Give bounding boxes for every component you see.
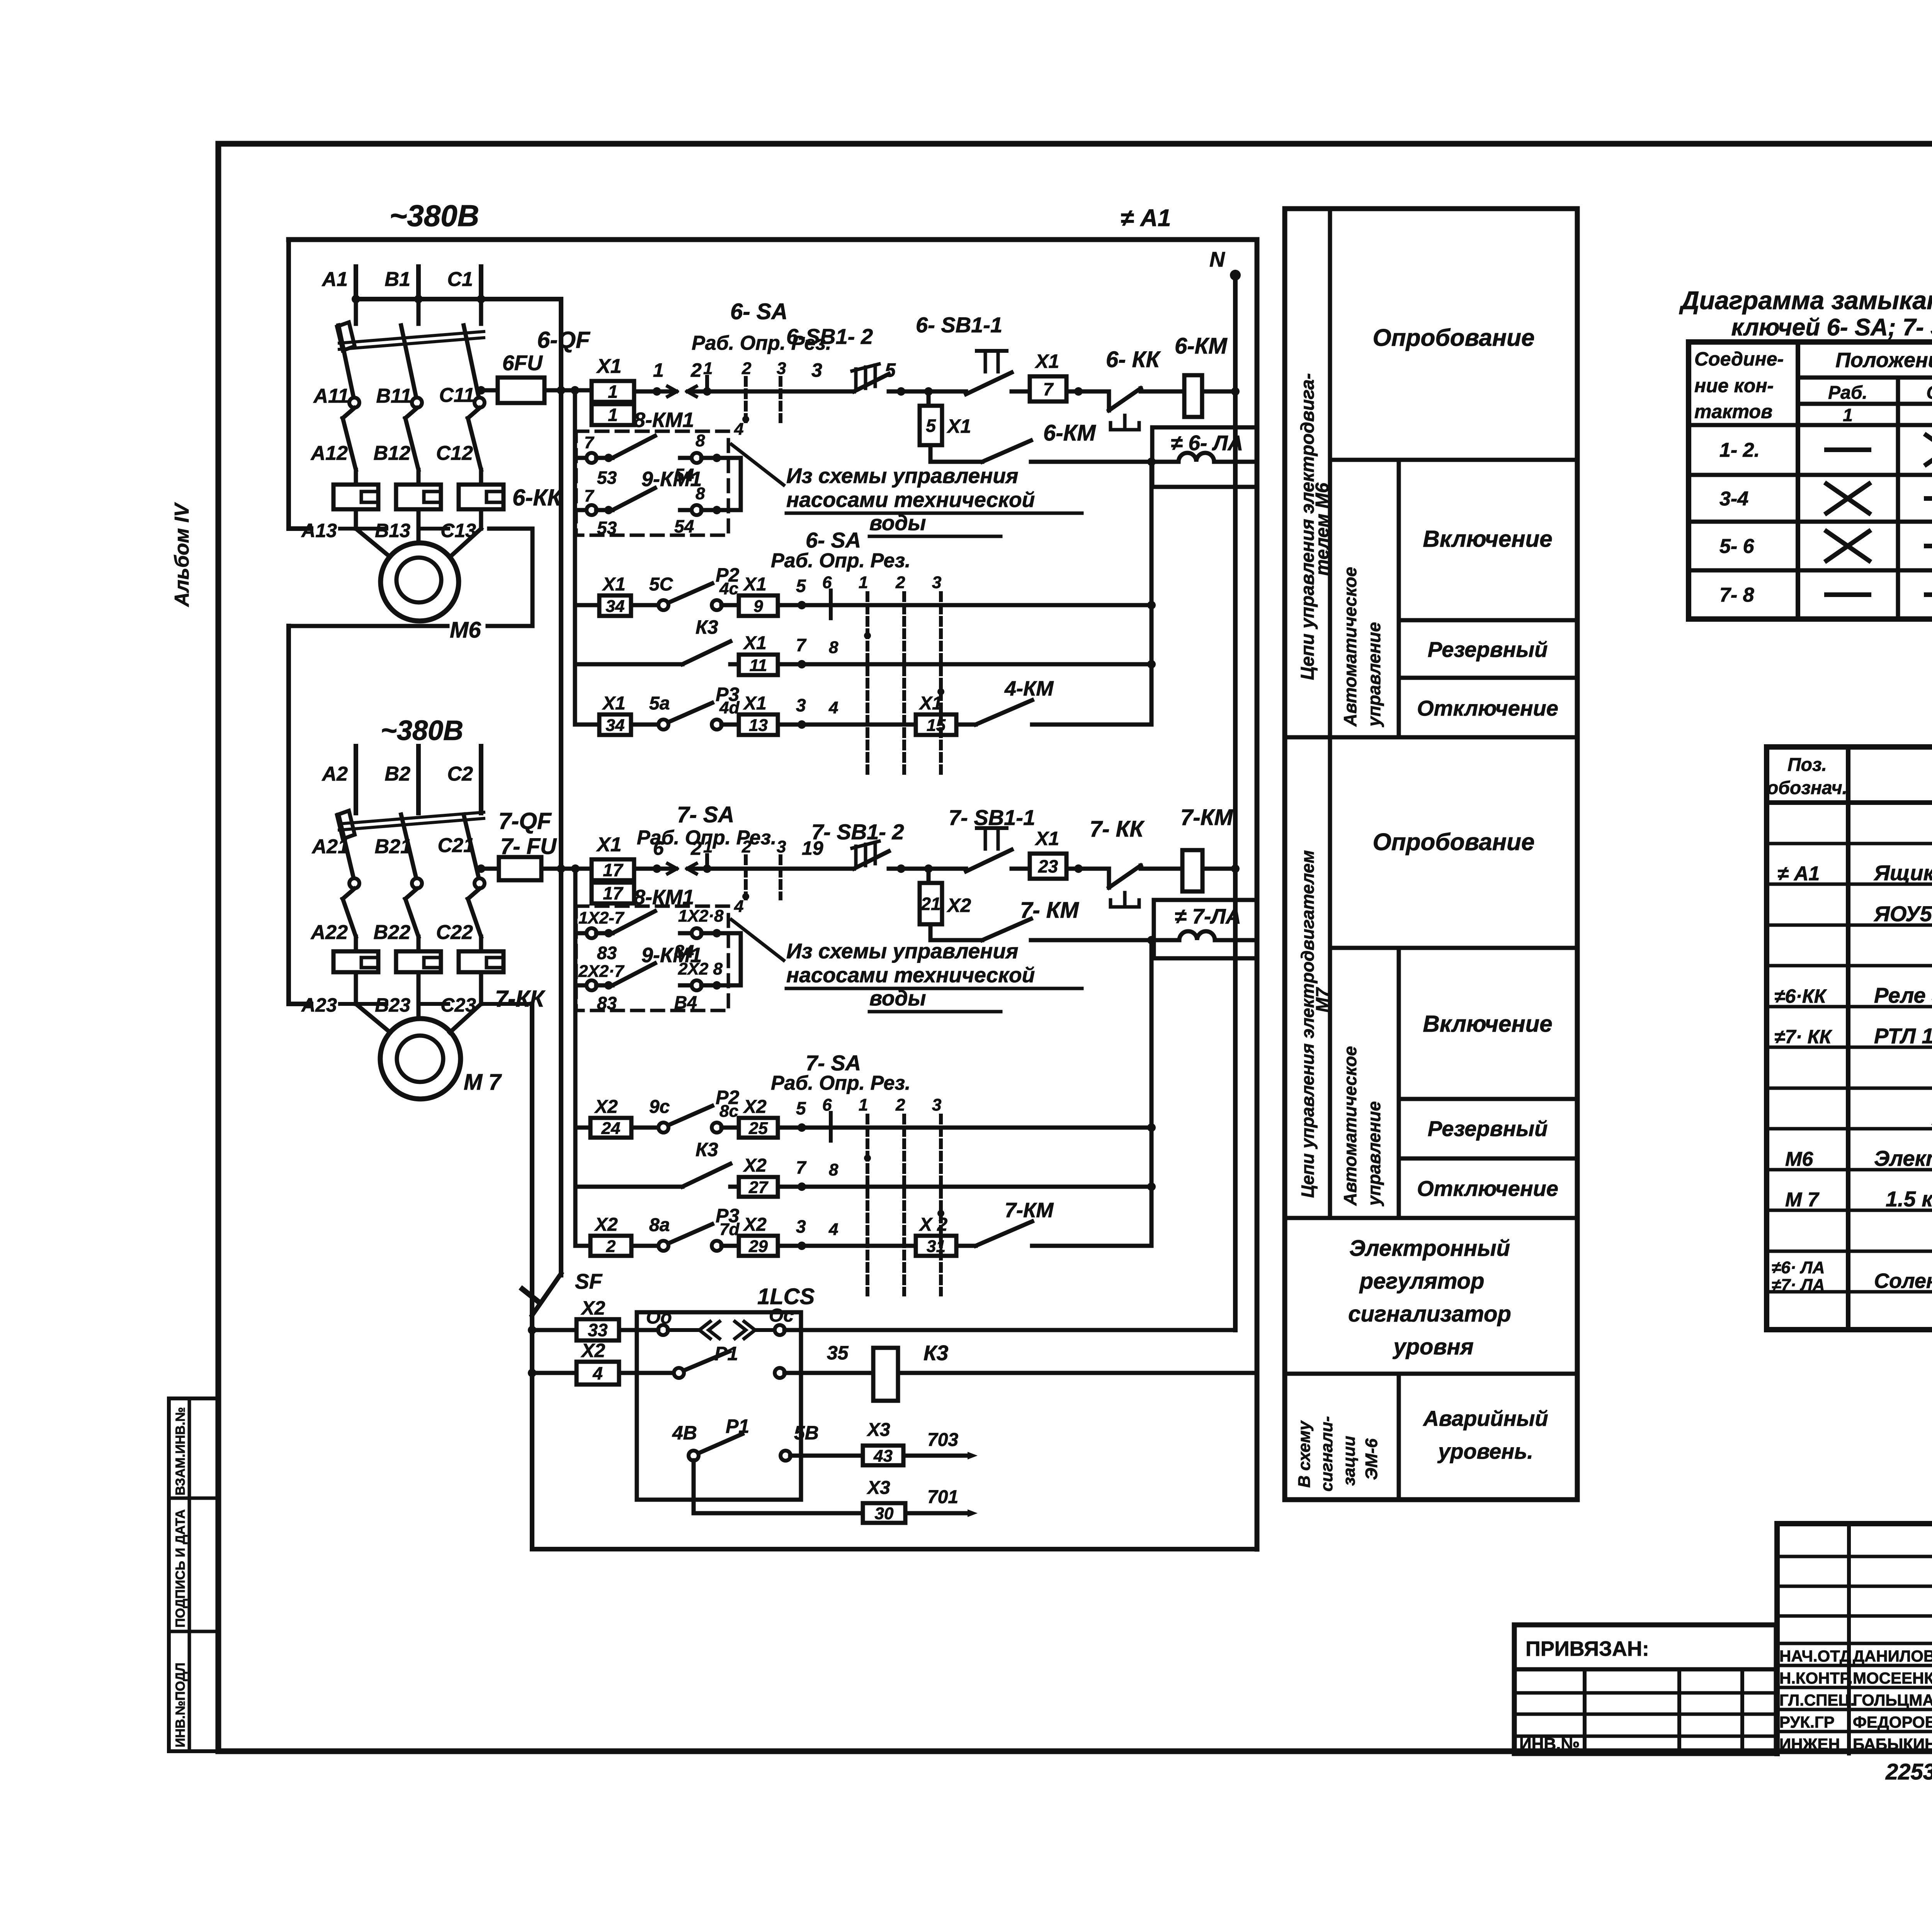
svg-text:ПОДПИСЬ И ДАТА: ПОДПИСЬ И ДАТА	[173, 1509, 188, 1628]
wire heater 1 to motor row	[354, 509, 358, 529]
connector X3 pin 30	[863, 1503, 905, 1523]
wire inductor to cabinet edge	[1214, 460, 1257, 464]
svg-text:2Х2 8: 2Х2 8	[678, 959, 723, 978]
motor M6 frame wire	[488, 529, 532, 626]
privyazan box	[1514, 1625, 1776, 1754]
motor M7 frame / section wire	[530, 1004, 534, 1549]
svg-text:Х2: Х2	[743, 1097, 767, 1117]
pushbutton 6-SB1-1 (stop)	[966, 351, 1012, 394]
svg-text:РТЛ 101004: РТЛ 101004	[1874, 1024, 1932, 1048]
svg-text:Х2: Х2	[580, 1340, 605, 1361]
wire 7-KM pole 2 to heater	[417, 937, 421, 951]
svg-text:В21: В21	[375, 835, 412, 858]
svg-text:1: 1	[703, 359, 713, 378]
svg-text:Отключение: Отключение	[1417, 1176, 1558, 1201]
dash mark	[1827, 447, 1869, 452]
svg-text:сигнали-: сигнали-	[1317, 1416, 1336, 1492]
wire pole 3 to heater	[479, 470, 483, 485]
connector X1 pin 13	[739, 714, 778, 735]
wire fuse to X1-17	[541, 867, 592, 871]
svg-text:1Х2-7: 1Х2-7	[578, 908, 625, 927]
connector X1 pin 23	[1030, 854, 1066, 879]
circuit breaker 6-QF pole 1 wire	[354, 299, 358, 324]
wire A13 row dash b	[421, 527, 448, 531]
thermal relay 7-KK heater 3	[459, 951, 503, 972]
svg-text:М6: М6	[450, 617, 481, 643]
svg-text:9-КМ1: 9-КМ1	[641, 468, 702, 491]
thermal relay contact 7-KK	[1109, 866, 1141, 907]
svg-text:6FU: 6FU	[502, 351, 543, 375]
svg-text:Х2: Х2	[743, 1214, 767, 1235]
svg-text:9: 9	[753, 597, 763, 616]
wire row3 b	[721, 723, 739, 727]
svg-text:Отключение: Отключение	[1417, 696, 1558, 720]
svg-text:Электронный: Электронный	[1349, 1236, 1510, 1261]
wire node5 to X1-5 connector	[927, 391, 931, 406]
svg-text:ИНВ.№: ИНВ.№	[1519, 1735, 1580, 1754]
wire phase C1 stub	[479, 267, 483, 299]
circuit breaker 6-QF pole 1 contact	[349, 398, 359, 408]
relay contact P2 (M7)	[658, 1106, 722, 1133]
svg-text:Цепи управления электродвигате: Цепи управления электродвигателем	[1298, 850, 1318, 1198]
svg-text:5: 5	[885, 359, 896, 381]
7-SA lower tick 6	[829, 1113, 833, 1141]
svg-text:А21: А21	[311, 835, 349, 858]
svg-text:зации: зации	[1340, 1436, 1359, 1486]
circuit breaker 7-QF pole 2 contact	[412, 878, 422, 888]
svg-text:≠7· КК: ≠7· КК	[1774, 1026, 1833, 1048]
svg-text:С12: С12	[436, 442, 473, 464]
svg-text:6-КМ: 6-КМ	[1175, 333, 1228, 359]
motor M6	[381, 543, 459, 621]
svg-text:обознач.: обознач.	[1767, 778, 1847, 798]
circuit breaker 7-QF pole 1 blade	[338, 815, 354, 878]
svg-text:1: 1	[608, 382, 618, 402]
M6 control sub-bus vertical	[573, 390, 577, 725]
svg-text:X1: X1	[1034, 350, 1059, 372]
svg-text:7- SА: 7- SА	[677, 802, 734, 827]
svg-text:X1: X1	[602, 574, 626, 595]
svg-text:М 7: М 7	[1785, 1189, 1820, 1211]
cabinet A1 top boundary line	[289, 237, 1257, 242]
svg-text:3: 3	[777, 359, 786, 378]
left margin strip box (inv/podp/vzam)	[169, 1398, 218, 1751]
wire 7-KM pole 3 to heater	[479, 937, 483, 951]
relay contact K3 (M7 row2)	[682, 1164, 730, 1187]
svg-text:6-КМ: 6-КМ	[1043, 420, 1096, 446]
motor M6 lead B	[417, 529, 421, 543]
svg-text:М7: М7	[1312, 987, 1332, 1012]
circuit breaker 6-QF pole 3 wire	[479, 299, 483, 324]
svg-text:1- 2.: 1- 2.	[1719, 439, 1760, 461]
wire to switch 7-SA	[692, 867, 854, 871]
svg-text:Соленоидный вентиль 15КЧ888Р: Соленоидный вентиль 15КЧ888РСВ	[1874, 1269, 1932, 1293]
wire X2-21 to 7-KM aux row	[929, 924, 933, 940]
svg-text:X1: X1	[946, 415, 971, 437]
wire SB1-2 to node 5	[889, 390, 966, 394]
solenoid 7-LA inductor	[1179, 931, 1215, 940]
svg-text:1: 1	[859, 573, 868, 592]
contactor 6-KM main contact pole 1	[343, 408, 356, 470]
svg-text:7- SВ1- 2: 7- SВ1- 2	[811, 820, 904, 844]
svg-text:РУК.ГР: РУК.ГР	[1779, 1713, 1835, 1731]
switch 7-SA tick 2	[744, 856, 748, 898]
switch 7-SA tick 3	[779, 856, 782, 898]
svg-text:А2: А2	[321, 763, 348, 785]
svg-text:6-КК: 6-КК	[512, 485, 563, 510]
svg-text:К3: К3	[696, 1139, 718, 1160]
svg-text:ГЛ.СПЕЦ.: ГЛ.СПЕЦ.	[1779, 1691, 1855, 1709]
svg-text:22535-04 8: 22535-04 8	[1885, 1759, 1932, 1784]
svg-text:2: 2	[690, 359, 702, 381]
svg-text:8-КМ1: 8-КМ1	[634, 408, 694, 432]
wire m7row1 to SA	[778, 1126, 1151, 1130]
svg-text:8: 8	[829, 1160, 838, 1179]
svg-text:3-4: 3-4	[1719, 488, 1748, 510]
wire row2 to SA	[778, 662, 1151, 667]
SA lower tick 6	[829, 590, 833, 618]
sensor electrodes symbol	[699, 1322, 755, 1339]
svg-text:X1: X1	[1034, 828, 1059, 849]
connector X2 pin 33	[577, 1319, 619, 1340]
svg-text:53: 53	[597, 518, 617, 538]
svg-text:5а: 5а	[649, 693, 670, 714]
svg-text:6- КК: 6- КК	[1106, 347, 1161, 372]
note text: from tech water pumps scheme (M7)	[786, 939, 1082, 1012]
connector X1 pin 5	[920, 406, 942, 445]
wire X1-5 down to KM aux row	[929, 445, 933, 462]
wire m7row3 to X2-31	[778, 1244, 916, 1248]
svg-text:2: 2	[606, 1237, 616, 1256]
svg-text:управление: управление	[1364, 1101, 1384, 1206]
svg-text:X1: X1	[743, 633, 767, 653]
svg-text:В1: В1	[385, 268, 410, 291]
svg-text:≠ 7-ЛА: ≠ 7-ЛА	[1175, 904, 1241, 928]
svg-text:≠6· ЛА: ≠6· ЛА	[1772, 1258, 1825, 1277]
wire M7 auto row2	[575, 1185, 682, 1189]
svg-text:7-QF: 7-QF	[498, 808, 552, 834]
svg-text:X1: X1	[596, 355, 622, 378]
svg-text:Резервный: Резервный	[1428, 637, 1548, 662]
svg-text:Электродвигатель 4А80В4УЗ: Электродвигатель 4А80В4УЗ	[1874, 1146, 1932, 1170]
svg-text:8с: 8с	[719, 1102, 738, 1121]
wire C21 to fuse 7-FU	[481, 867, 499, 871]
svg-text:1.5 кВт, ~380В: 1.5 кВт, ~380В	[1886, 1187, 1932, 1211]
wire 7-LA inductor leads	[1215, 938, 1257, 942]
wire m7row3 a	[631, 1244, 659, 1248]
svg-text:1Х2·8: 1Х2·8	[678, 907, 724, 925]
contact closure diagram title	[1679, 286, 1932, 341]
svg-text:Включение: Включение	[1423, 1011, 1552, 1037]
relay contact P3	[658, 703, 722, 730]
switch SF	[522, 1274, 561, 1315]
sensor row2 contact	[674, 1351, 801, 1378]
svg-text:ние кон-: ние кон-	[1694, 375, 1774, 396]
bus N vertical	[1230, 270, 1241, 1330]
svg-text:7: 7	[584, 433, 595, 452]
svg-text:В12: В12	[374, 442, 410, 464]
dash mark	[1827, 592, 1869, 597]
pushbutton 6-SB1-2	[852, 364, 889, 391]
wire A23 row dash b	[421, 1002, 448, 1006]
revision/names grid	[1777, 1524, 1932, 1754]
circuit breaker 6-QF pole 2 blade	[401, 325, 416, 397]
interlock dashed box M7	[576, 906, 728, 1010]
svg-text:7: 7	[796, 1157, 807, 1177]
wire row1 b	[721, 603, 739, 607]
svg-text:А12: А12	[310, 442, 348, 464]
switch 6-SA tick 4 dot	[742, 416, 749, 423]
svg-text:3: 3	[932, 1095, 941, 1114]
circuit breaker 6-QF pole 2 wire	[417, 299, 421, 324]
circuit breaker 7-QF pole 2 blade	[401, 815, 416, 878]
cell label: electronic level regulator	[1348, 1236, 1511, 1359]
connector X2 pin 31	[916, 1236, 956, 1256]
svg-text:X1: X1	[743, 693, 767, 714]
svg-text:29: 29	[748, 1237, 768, 1256]
circuit breaker 6-QF handle	[337, 322, 355, 350]
svg-text:7- SВ1-1: 7- SВ1-1	[949, 805, 1035, 830]
svg-text:~380В: ~380В	[381, 715, 463, 746]
thermal relay 7-KK heater 1	[333, 951, 378, 972]
svg-text:А22: А22	[310, 921, 348, 944]
svg-text:воды: воды	[869, 986, 926, 1010]
svg-text:Х2: Х2	[743, 1155, 767, 1176]
wire M6 auto row2	[575, 662, 682, 667]
svg-text:Раб. Опр. Рез.: Раб. Опр. Рез.	[771, 549, 910, 572]
wire pole 1 to heater	[354, 470, 358, 485]
svg-text:2: 2	[742, 359, 752, 378]
svg-text:17: 17	[603, 883, 624, 903]
svg-text:воды: воды	[869, 511, 926, 535]
main control bus vertical (from 380V bus)	[559, 299, 563, 1275]
svg-text:4: 4	[828, 698, 838, 717]
svg-text:В схему: В схему	[1295, 1420, 1314, 1488]
svg-text:7- КМ: 7- КМ	[1020, 898, 1079, 923]
svg-text:ФЕДОРОВА: ФЕДОРОВА	[1853, 1713, 1932, 1731]
svg-text:Положение рукоятки: Положение рукоятки	[1835, 349, 1932, 372]
svg-text:4d: 4d	[719, 698, 740, 717]
svg-text:2: 2	[895, 1095, 905, 1114]
svg-text:17: 17	[603, 860, 624, 880]
svg-text:7- SА: 7- SА	[806, 1051, 861, 1075]
auxiliary contact 7-KM (self-hold)	[930, 919, 1031, 940]
svg-text:53: 53	[597, 468, 617, 488]
wire phase C2 stub	[479, 746, 483, 813]
svg-text:7- 8: 7- 8	[1719, 584, 1754, 606]
wire 7-KM aux to solenoid	[1031, 938, 1179, 942]
switch 7-SA tick 1	[705, 855, 709, 869]
svg-text:~380В: ~380В	[389, 199, 479, 233]
svg-text:С1: С1	[447, 268, 473, 291]
svg-text:насосами технической: насосами технической	[786, 488, 1035, 512]
svg-text:ВЗАМ.ИНВ.№: ВЗАМ.ИНВ.№	[173, 1407, 188, 1495]
svg-text:Автоматическое: Автоматическое	[1340, 567, 1360, 727]
connector X1 pin 9	[739, 595, 778, 616]
wire X2-33 to 1LCS	[619, 1328, 657, 1332]
wire M7 auto row3	[575, 1244, 590, 1248]
wire M6 auto row3	[575, 723, 599, 727]
svg-text:тактов: тактов	[1694, 401, 1772, 422]
svg-text:Х2: Х2	[594, 1097, 618, 1117]
circuit breaker 6-QF pole 3 blade	[464, 325, 479, 397]
svg-text:23: 23	[1038, 856, 1058, 876]
svg-text:2Х2·7: 2Х2·7	[578, 962, 625, 981]
svg-text:Альбом IV: Альбом IV	[171, 502, 193, 607]
svg-text:сигнализатор: сигнализатор	[1348, 1301, 1511, 1327]
wire m7row3 to riser	[1032, 1244, 1151, 1248]
svg-text:Из схемы управления: Из схемы управления	[786, 464, 1018, 488]
rotated label: to signalling scheme EM-6	[1295, 1416, 1381, 1492]
svg-text:703: 703	[927, 1430, 958, 1450]
motor M7 lead A	[356, 1004, 390, 1032]
svg-text:4: 4	[734, 897, 743, 916]
svg-text:А1: А1	[321, 268, 348, 291]
svg-text:4В: 4В	[672, 1422, 697, 1444]
svg-text:ГОЛЬЦМАН: ГОЛЬЦМАН	[1853, 1691, 1932, 1709]
cabinet boundary (M7 left)	[289, 626, 311, 1004]
svg-text:Х2: Х2	[946, 895, 971, 916]
svg-text:В2: В2	[385, 763, 411, 785]
svg-text:3: 3	[796, 1216, 806, 1237]
svg-text:НАЧ.ОТД: НАЧ.ОТД	[1779, 1647, 1851, 1665]
svg-text:ИНЖЕН: ИНЖЕН	[1779, 1735, 1840, 1753]
svg-text:21: 21	[920, 894, 940, 914]
svg-text:6: 6	[822, 573, 832, 592]
svg-text:3: 3	[811, 359, 822, 381]
connector X2 pin 2	[590, 1236, 631, 1256]
svg-text:2: 2	[895, 573, 905, 592]
svg-text:3: 3	[777, 837, 786, 856]
circuit breaker 6-QF pole 3 contact	[474, 398, 485, 408]
svg-text:Автоматическое: Автоматическое	[1340, 1046, 1360, 1206]
wire row3 a	[631, 723, 659, 727]
SA lower tick 1	[866, 593, 869, 773]
svg-text:3: 3	[932, 573, 941, 592]
dash mark	[1926, 544, 1932, 548]
svg-text:7: 7	[584, 486, 595, 505]
svg-text:13: 13	[749, 716, 768, 735]
svg-text:Раб. Опр. Рез.: Раб. Опр. Рез.	[771, 1072, 910, 1094]
7-SA lower tick 3	[939, 1116, 943, 1294]
svg-text:3: 3	[796, 695, 806, 715]
function table frame	[1285, 209, 1577, 1500]
wire X3-43 out arrow	[903, 1454, 970, 1458]
wire 7-KM coil to N	[1202, 867, 1235, 871]
motor M7 lead C	[450, 1004, 481, 1032]
M7 rows riser wire	[1150, 940, 1154, 1246]
wire phase A2 stub	[354, 746, 358, 813]
connector X1 pin 34 (row1)	[599, 595, 631, 616]
svg-text:54: 54	[674, 516, 694, 536]
note leader line (M6)	[731, 444, 784, 485]
svg-text:4с: 4с	[719, 579, 738, 598]
wire row4	[694, 1511, 863, 1516]
circuit breaker 7-QF tie bar	[339, 812, 484, 830]
svg-text:8: 8	[829, 638, 838, 657]
interlock dashed box (from tech-water pumps scheme)	[576, 431, 728, 535]
motor M7 lead B	[417, 1004, 421, 1019]
wire phase A1 stub	[354, 267, 358, 299]
wire 7-KM pole 1 to heater	[354, 937, 358, 951]
7-SA lower tick 2	[902, 1116, 906, 1294]
connector X2 pin 27	[739, 1177, 778, 1197]
switch 6-SA contact tick 1	[705, 377, 709, 391]
svg-text:Х2: Х2	[580, 1297, 605, 1319]
motor M6 lead A	[356, 529, 389, 556]
contactor 7-KM main contact pole 3	[468, 889, 481, 937]
svg-text:24: 24	[601, 1119, 621, 1138]
connector X1 pin 15	[916, 714, 956, 735]
wire to X2-4	[532, 1371, 577, 1375]
svg-text:83: 83	[597, 943, 617, 963]
thermal relay 6-KK heater 3	[459, 485, 503, 509]
contactor 6-KM main contact pole 3	[468, 408, 481, 470]
svg-text:управление: управление	[1364, 622, 1384, 727]
parts list table grid	[1767, 747, 1932, 1330]
wire A13 row dash a	[340, 527, 386, 531]
connector X1 pin 11	[739, 655, 778, 675]
thermal relay 6-KK heater 1	[333, 485, 378, 509]
svg-text:С2: С2	[447, 763, 473, 785]
wire row3 to riser	[1032, 723, 1151, 727]
circuit breaker 6-QF pole 2 contact	[412, 398, 422, 408]
connector separation arrows (M7)	[668, 864, 677, 869]
svg-text:Опр.: Опр.	[1926, 383, 1932, 403]
title block outer top line	[1777, 1521, 1932, 1526]
wire C11 to fuse	[481, 388, 498, 393]
solenoid valve 7-LA box	[1154, 900, 1257, 958]
closed contact X mark	[1827, 484, 1869, 513]
relay contact P3 (M7)	[658, 1224, 722, 1251]
contactor 7-KM main contact pole 1	[343, 889, 356, 937]
switch 6-SA contact tick 2	[744, 378, 748, 421]
connector X2 pin 25	[739, 1118, 778, 1138]
wire interlock tie (M7)	[739, 933, 743, 985]
svg-text:Аварийный: Аварийный	[1422, 1406, 1548, 1431]
wire row2 a	[730, 662, 739, 667]
connector separation arrows node 1-2	[668, 386, 677, 391]
wire pole 2 to heater	[417, 470, 421, 485]
svg-text:43: 43	[873, 1446, 893, 1465]
interlock contact 9-KM1	[575, 488, 741, 515]
wire X1-17 to node	[634, 867, 672, 871]
circuit breaker 7-QF handle	[337, 811, 355, 839]
wire SB1-1 to X1-23	[1012, 867, 1030, 871]
interlock contact 9-KM1 (M7)	[575, 963, 741, 990]
svg-text:25: 25	[748, 1119, 768, 1138]
svg-text:К3: К3	[696, 616, 718, 638]
contactor coil 7-KM	[1182, 850, 1202, 891]
note leader line (M7)	[731, 920, 784, 960]
wire X1-23 to 7-KK	[1066, 867, 1109, 871]
svg-text:Резервный: Резервный	[1428, 1116, 1548, 1141]
svg-text:Раб.: Раб.	[1828, 383, 1867, 403]
svg-text:6- SA: 6- SA	[730, 299, 787, 324]
svg-text:Н.КОНТР.: Н.КОНТР.	[1779, 1669, 1853, 1687]
svg-text:К3: К3	[923, 1341, 948, 1365]
svg-text:1: 1	[1843, 405, 1853, 425]
svg-text:М6: М6	[1785, 1148, 1813, 1170]
svg-text:регулятор: регулятор	[1359, 1269, 1485, 1294]
svg-text:8: 8	[696, 484, 705, 503]
connector X1 pin 1 (lower)	[592, 404, 634, 425]
svg-text:А23: А23	[301, 994, 337, 1016]
wire 6-KK to coil 6-KM	[1141, 390, 1184, 394]
fuse 7-FU	[499, 857, 541, 880]
svg-text:4: 4	[592, 1363, 603, 1383]
motor M6 lead C	[451, 529, 481, 556]
